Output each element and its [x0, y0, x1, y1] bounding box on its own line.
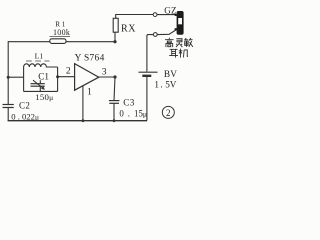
capacitor C3	[109, 101, 120, 104]
label earphone chinese: ji	[179, 49, 188, 58]
wire: tank right side	[57, 67, 59, 91]
wire: top rail left segment	[8, 41, 50, 43]
earphone body	[177, 11, 184, 35]
svg-text:0 . 022μ: 0 . 022μ	[11, 111, 39, 121]
label earphone chinese: gao	[165, 38, 173, 47]
node: C3 on bottom rail	[113, 119, 116, 122]
svg-text:C2: C2	[19, 101, 30, 111]
wire: left rail to tank	[8, 76, 23, 78]
wire: pin 2 input	[58, 76, 75, 78]
capacitor C2	[3, 105, 14, 108]
capacitor C1 variable arrow	[33, 80, 43, 88]
battery BV plate long	[139, 71, 158, 73]
svg-text:3: 3	[102, 66, 107, 77]
wire: left rail upper	[7, 41, 9, 104]
wire: battery top to GZ lower	[147, 35, 153, 72]
wire: tank left side	[23, 67, 25, 91]
node: pin1 on bottom rail	[82, 119, 85, 122]
svg-text:1: 1	[87, 86, 92, 97]
svg-text:100k: 100k	[53, 28, 70, 37]
node: tank input on left rail	[7, 76, 10, 79]
capacitor C1 plates	[31, 84, 45, 87]
wire: GZ upper to earphone	[157, 14, 176, 16]
wire: top rail right segment	[66, 41, 115, 43]
terminal GZ lower	[153, 33, 157, 37]
battery BV plate short	[142, 75, 151, 77]
svg-text:0.15μ: 0.15μ	[119, 108, 147, 118]
svg-text:2: 2	[166, 108, 171, 118]
wire: junction vertical RX bottom lead	[114, 32, 116, 42]
node: output junction	[113, 75, 116, 78]
resistor R1	[50, 39, 66, 44]
node: tank output	[56, 75, 59, 78]
label earphone chinese: er	[169, 49, 178, 57]
wire: RX top to GZ terminal	[116, 15, 154, 19]
svg-text:C3: C3	[123, 98, 134, 108]
resistor RX	[113, 18, 118, 32]
wire: left rail lower	[7, 108, 9, 121]
node: RX junction on top rail	[113, 40, 116, 43]
earphone tick bottom	[175, 28, 177, 30]
wire: bottom rail	[8, 120, 147, 122]
wire: output junction down to C3	[114, 77, 115, 101]
earphone body gap	[178, 18, 182, 24]
svg-text:L1: L1	[35, 52, 44, 61]
op-amp U1 YS764	[75, 64, 99, 91]
inductor L1 coil	[24, 64, 58, 67]
wire: pin 1 down	[82, 86, 84, 121]
label earphone chinese: ling	[176, 39, 182, 47]
svg-text:1.5V: 1.5V	[154, 80, 176, 90]
svg-text:C1: C1	[38, 72, 49, 82]
svg-text:150μ: 150μ	[35, 92, 53, 102]
wire: tank bottom side	[24, 90, 58, 92]
terminal GZ upper	[153, 13, 157, 17]
figure number 2 circled	[162, 106, 174, 118]
wire: C1 bottom stub	[39, 86, 41, 91]
earphone tick top	[175, 14, 177, 16]
label earphone chinese: min	[184, 38, 192, 47]
inductor L1 core dashes	[26, 60, 50, 62]
wire: GZ lower to earphone	[157, 30, 176, 35]
wire: C1 top stub	[39, 80, 41, 84]
svg-text:2: 2	[66, 66, 71, 77]
svg-text:RX: RX	[121, 24, 136, 35]
wire: C3 to bottom rail	[113, 103, 115, 120]
svg-text:Y S764: Y S764	[75, 53, 105, 63]
wire: pin 3 output	[99, 76, 115, 78]
wire: battery to bottom rail	[146, 77, 148, 121]
